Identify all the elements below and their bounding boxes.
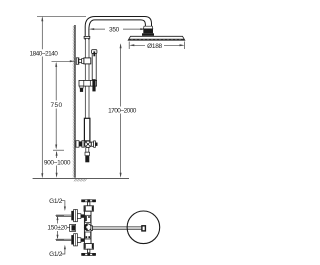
svg-text:150±20: 150±20 xyxy=(47,224,68,231)
svg-text:1840~2140: 1840~2140 xyxy=(30,50,59,57)
svg-text:G1/2: G1/2 xyxy=(49,251,63,258)
svg-text:G1/2: G1/2 xyxy=(49,198,63,205)
svg-text:350: 350 xyxy=(109,26,120,33)
svg-text:Ø188: Ø188 xyxy=(147,43,162,50)
svg-text:900~1000: 900~1000 xyxy=(44,159,71,166)
svg-text:750: 750 xyxy=(50,102,62,109)
svg-text:1700~2000: 1700~2000 xyxy=(108,108,137,115)
